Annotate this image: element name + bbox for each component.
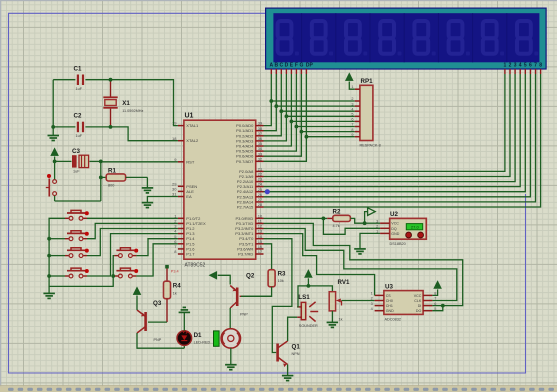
- junction bus K4: [47, 274, 51, 278]
- U2 labels: [390, 211, 406, 246]
- svg-text:4: 4: [371, 307, 373, 311]
- svg-text:DO: DO: [416, 309, 422, 313]
- svg-text:1: 1: [371, 292, 373, 296]
- svg-text:800: 800: [108, 184, 114, 188]
- power terminal (Q3): [133, 287, 141, 310]
- svg-text:ADC0832: ADC0832: [385, 318, 401, 322]
- push button (reset): [46, 161, 57, 201]
- svg-text:Q2: Q2: [246, 273, 255, 280]
- wire U3 DO join: [432, 306, 442, 311]
- svg-text:P3.4: P3.4: [171, 270, 179, 274]
- power terminal (LS1/RV1): [305, 270, 313, 286]
- svg-text:1: 1: [376, 230, 378, 234]
- sounder LS1: [297, 294, 318, 328]
- button K3: [65, 248, 89, 258]
- wire bus K6: [113, 275, 114, 277]
- svg-text:EA: EA: [186, 194, 192, 199]
- svg-text:1: 1: [351, 85, 353, 89]
- wire P3.2 to U3 CLK: [264, 229, 457, 301]
- wire K5 to P1.4: [136, 239, 178, 256]
- svg-text:B: B: [274, 62, 278, 68]
- svg-text:LS1: LS1: [298, 294, 310, 301]
- RP1 pins: [351, 85, 360, 137]
- svg-text:4: 4: [519, 62, 522, 68]
- wire U2 GND to ground: [360, 233, 380, 249]
- wire RST: [101, 161, 178, 163]
- svg-text:2: 2: [509, 62, 512, 68]
- svg-text:2: 2: [351, 97, 353, 101]
- P0 bus branch wires to RP1: [269, 99, 354, 139]
- U2 DS18B20: [376, 218, 426, 239]
- svg-text:GND: GND: [391, 232, 399, 236]
- svg-text:U2: U2: [390, 211, 398, 218]
- LED D1 (LED-RED): [177, 330, 211, 348]
- svg-text:8: 8: [539, 62, 542, 68]
- U3 labels: [385, 284, 401, 322]
- ground (buttons): [43, 293, 55, 298]
- svg-text:1uF: 1uF: [76, 87, 83, 91]
- wire Q1 emitter to ground: [287, 365, 289, 376]
- svg-text:P2.7/A15: P2.7/A15: [237, 205, 254, 210]
- wire Q1 collector to LS1: [288, 317, 298, 341]
- button K2: [65, 231, 89, 241]
- U1 reference label: [185, 113, 194, 120]
- transistor Q3 (PNP): [137, 300, 162, 342]
- svg-text:CLK: CLK: [414, 299, 422, 303]
- svg-text:PNP: PNP: [154, 338, 162, 342]
- wire bus K4: [49, 275, 65, 277]
- probe marker P2.4 (blue): [265, 189, 270, 194]
- wire C1-C2 left: [52, 80, 54, 127]
- svg-text:6: 6: [529, 62, 532, 68]
- svg-text:F: F: [295, 62, 298, 68]
- svg-text:28: 28: [258, 202, 263, 207]
- node R2 left: [322, 217, 326, 221]
- potentiometer RV1: [329, 279, 350, 322]
- svg-text:Q3: Q3: [153, 300, 162, 307]
- ground (R1): [142, 188, 154, 193]
- wire P3.4 run: [264, 239, 292, 353]
- ground (crystal): [48, 136, 60, 141]
- power terminal (RP1): [346, 73, 355, 89]
- svg-text:NPN: NPN: [292, 352, 300, 356]
- svg-text:SOUNDER: SOUNDER: [299, 324, 318, 328]
- U1 left pins: [172, 121, 206, 257]
- svg-text:R4: R4: [173, 283, 181, 290]
- svg-text:4: 4: [351, 107, 353, 111]
- wire RV1 wiper to U3 CH0: [342, 300, 375, 302]
- svg-text:2: 2: [376, 225, 378, 229]
- crystal X1: [103, 80, 143, 127]
- svg-text:1: 1: [504, 62, 507, 68]
- svg-text:PNP: PNP: [240, 313, 248, 317]
- wire bus K2: [49, 238, 65, 240]
- svg-text:RP1: RP1: [361, 78, 374, 85]
- display pin labels ABCDEFG DP / 12345678: [269, 62, 542, 68]
- display segment pin stubs: [271, 69, 306, 74]
- display digit pin stubs: [505, 69, 541, 74]
- wire K3 to P1.2: [87, 229, 178, 256]
- button K4: [65, 268, 89, 278]
- svg-text:10k: 10k: [278, 279, 284, 283]
- svg-text:CS: CS: [386, 294, 392, 298]
- junction bus K3: [47, 254, 51, 258]
- power terminal (Q2): [209, 272, 230, 285]
- svg-text:XTAL1: XTAL1: [186, 123, 199, 128]
- svg-text:VCC: VCC: [414, 294, 422, 298]
- P0 bus wires to display segments: [264, 74, 307, 161]
- wire K1 to P1.0: [87, 217, 178, 219]
- transistor Q1 (NPN): [278, 341, 301, 367]
- ground (D1, inverted): [179, 307, 191, 312]
- svg-text:CH1: CH1: [386, 304, 393, 308]
- svg-text:U3: U3: [385, 284, 393, 291]
- power terminal (reset): [51, 148, 59, 161]
- wire XTAL2: [111, 127, 178, 141]
- wire P3.1 to U3 DI: [264, 223, 463, 305]
- capacitor C2: [53, 113, 110, 139]
- wire K6 to P1.5: [136, 244, 178, 276]
- svg-text:R3: R3: [278, 270, 286, 277]
- wire P3.5 to R3: [264, 244, 272, 270]
- node C3-RST: [99, 160, 103, 164]
- svg-text:8: 8: [351, 128, 353, 132]
- svg-text:C1: C1: [74, 66, 82, 73]
- node VCC-LS1-RV1: [307, 284, 311, 288]
- svg-text:D: D: [285, 62, 289, 68]
- svg-text:7: 7: [351, 123, 353, 127]
- button bus left: [49, 218, 114, 286]
- junction bus K2: [47, 237, 51, 241]
- junction bus K6: [111, 274, 115, 278]
- svg-text:CH0: CH0: [386, 299, 393, 303]
- node C2-X1-XTAL2: [109, 125, 113, 129]
- wire D1 to ground: [183, 312, 185, 330]
- wire motor to ground: [230, 348, 232, 365]
- RP1 labels: [360, 78, 381, 148]
- wire Q2 collector to motor: [229, 308, 231, 329]
- svg-text:AT89C52: AT89C52: [185, 263, 206, 269]
- wire P3.3 to U3 CS: [264, 234, 375, 296]
- svg-text:RV1: RV1: [338, 279, 350, 286]
- wire button to R1 net: [55, 200, 101, 202]
- svg-text:27.0: 27.0: [411, 225, 420, 230]
- wire EA to ground: [147, 197, 178, 203]
- ground (U2): [354, 249, 366, 254]
- svg-text:A: A: [269, 62, 273, 68]
- svg-text:RESPACK-8: RESPACK-8: [360, 144, 381, 148]
- svg-text:5: 5: [524, 62, 527, 68]
- resistor R3: [268, 270, 286, 287]
- svg-text:U1: U1: [185, 113, 194, 120]
- resistor R4: [164, 269, 182, 323]
- svg-text:C3: C3: [72, 148, 80, 155]
- svg-text:1k: 1k: [173, 292, 177, 296]
- wire K2 to P1.1: [87, 223, 178, 238]
- svg-text:P3.7/RD: P3.7/RD: [238, 252, 253, 257]
- node R1 tap: [99, 176, 103, 180]
- svg-text:5: 5: [351, 113, 353, 117]
- ground (EA): [142, 203, 154, 208]
- wire DQ run: [323, 218, 380, 234]
- svg-text:4.7k: 4.7k: [333, 224, 340, 228]
- wire Q2 base: [240, 295, 272, 297]
- svg-text:DI: DI: [418, 304, 422, 308]
- U1 AT89C52 body: [184, 120, 256, 259]
- svg-text:1uF: 1uF: [73, 170, 80, 174]
- wire XTAL1: [111, 80, 178, 126]
- svg-text:X1: X1: [122, 100, 130, 107]
- svg-text:DQ: DQ: [391, 227, 397, 231]
- wire P3.0: [264, 217, 324, 219]
- resistor R2: [323, 209, 350, 229]
- transistor Q2 (PNP): [230, 273, 255, 317]
- wire buttons ground stem: [48, 286, 50, 293]
- svg-text:D1: D1: [194, 332, 202, 339]
- svg-text:32: 32: [258, 156, 263, 161]
- wire RV1 to ground: [331, 311, 333, 323]
- terminal P3.4 (R4): [165, 265, 178, 274]
- svg-text:2: 2: [371, 297, 373, 301]
- U1 value label AT89C52: [185, 263, 206, 269]
- wire Q3 collector to D1: [137, 333, 184, 348]
- button K6: [114, 268, 138, 278]
- svg-text:C: C: [279, 62, 283, 68]
- svg-text:XTAL2: XTAL2: [186, 138, 199, 143]
- wire R1 to ground: [146, 177, 148, 188]
- svg-text:9: 9: [351, 133, 353, 137]
- svg-text:C2: C2: [74, 113, 82, 120]
- P2 bus wires to display digit pins: [264, 74, 541, 207]
- ground (RV1): [327, 322, 339, 327]
- svg-text:3: 3: [351, 102, 353, 106]
- svg-text:7: 7: [534, 62, 537, 68]
- svg-text:P0.7/AD7: P0.7/AD7: [236, 159, 254, 164]
- wire K4 to P1.3: [87, 234, 178, 276]
- svg-text:P1.7: P1.7: [186, 252, 195, 257]
- node VCC-C3-button: [53, 160, 57, 164]
- display digits: [278, 21, 539, 56]
- 8-digit 7-segment display module: [265, 8, 547, 70]
- wire VCC to LS1 top: [297, 286, 308, 307]
- svg-text:3: 3: [371, 302, 373, 306]
- wire C3 node down: [100, 161, 102, 201]
- svg-text:R2: R2: [333, 209, 341, 216]
- node DI-DO: [441, 304, 445, 308]
- svg-text:11.0592MHz: 11.0592MHz: [122, 109, 143, 113]
- svg-text:G: G: [299, 62, 303, 68]
- svg-text:3: 3: [514, 62, 517, 68]
- svg-text:3: 3: [376, 219, 378, 223]
- node U2 VCC: [363, 221, 367, 225]
- U1 right pins: [235, 121, 263, 257]
- svg-text:RST: RST: [186, 159, 195, 164]
- U3 ADC0832: [371, 291, 437, 315]
- wire U3 VCC: [432, 289, 437, 295]
- RP1 RESPACK-8 body: [360, 85, 373, 140]
- capacitor C3 (electrolytic): [55, 148, 101, 174]
- svg-text:17: 17: [258, 249, 263, 254]
- capacitor C1: [53, 66, 110, 92]
- window bottom bar: [0, 385, 557, 392]
- svg-text:DS18B20: DS18B20: [390, 242, 406, 246]
- ground (motor): [225, 365, 237, 370]
- ground (Q1): [282, 376, 294, 381]
- svg-text:VCC: VCC: [391, 222, 399, 226]
- wire R4 to Q3 base: [148, 321, 167, 323]
- svg-text:Q1: Q1: [292, 344, 301, 351]
- power terminal (U3): [434, 281, 442, 289]
- svg-text:1uF: 1uF: [76, 134, 83, 138]
- wire VCC to U2 pin3: [365, 222, 381, 224]
- node C1-X1-XTAL1: [109, 78, 113, 82]
- wire R2 right to VCC node: [350, 218, 364, 223]
- button K1: [65, 210, 89, 220]
- svg-text:LED-RED: LED-RED: [194, 340, 211, 344]
- motor green indicator: [214, 331, 220, 346]
- resistor R1: [101, 167, 148, 187]
- svg-text:6: 6: [351, 118, 353, 122]
- wire R3 to Q2 base: [241, 287, 272, 297]
- svg-text:GND: GND: [386, 309, 394, 313]
- motor M1: [221, 329, 240, 348]
- svg-text:DP: DP: [306, 62, 314, 68]
- button K5: [114, 248, 138, 258]
- power terminal (U2): [365, 208, 376, 223]
- wire to crystal ground: [52, 127, 54, 136]
- wire VCC to RV1: [308, 286, 332, 292]
- svg-text:R1: R1: [108, 167, 116, 174]
- svg-text:1k: 1k: [339, 318, 343, 322]
- wire bus K3: [49, 255, 65, 257]
- node C1-C2 gnd junction: [51, 125, 55, 129]
